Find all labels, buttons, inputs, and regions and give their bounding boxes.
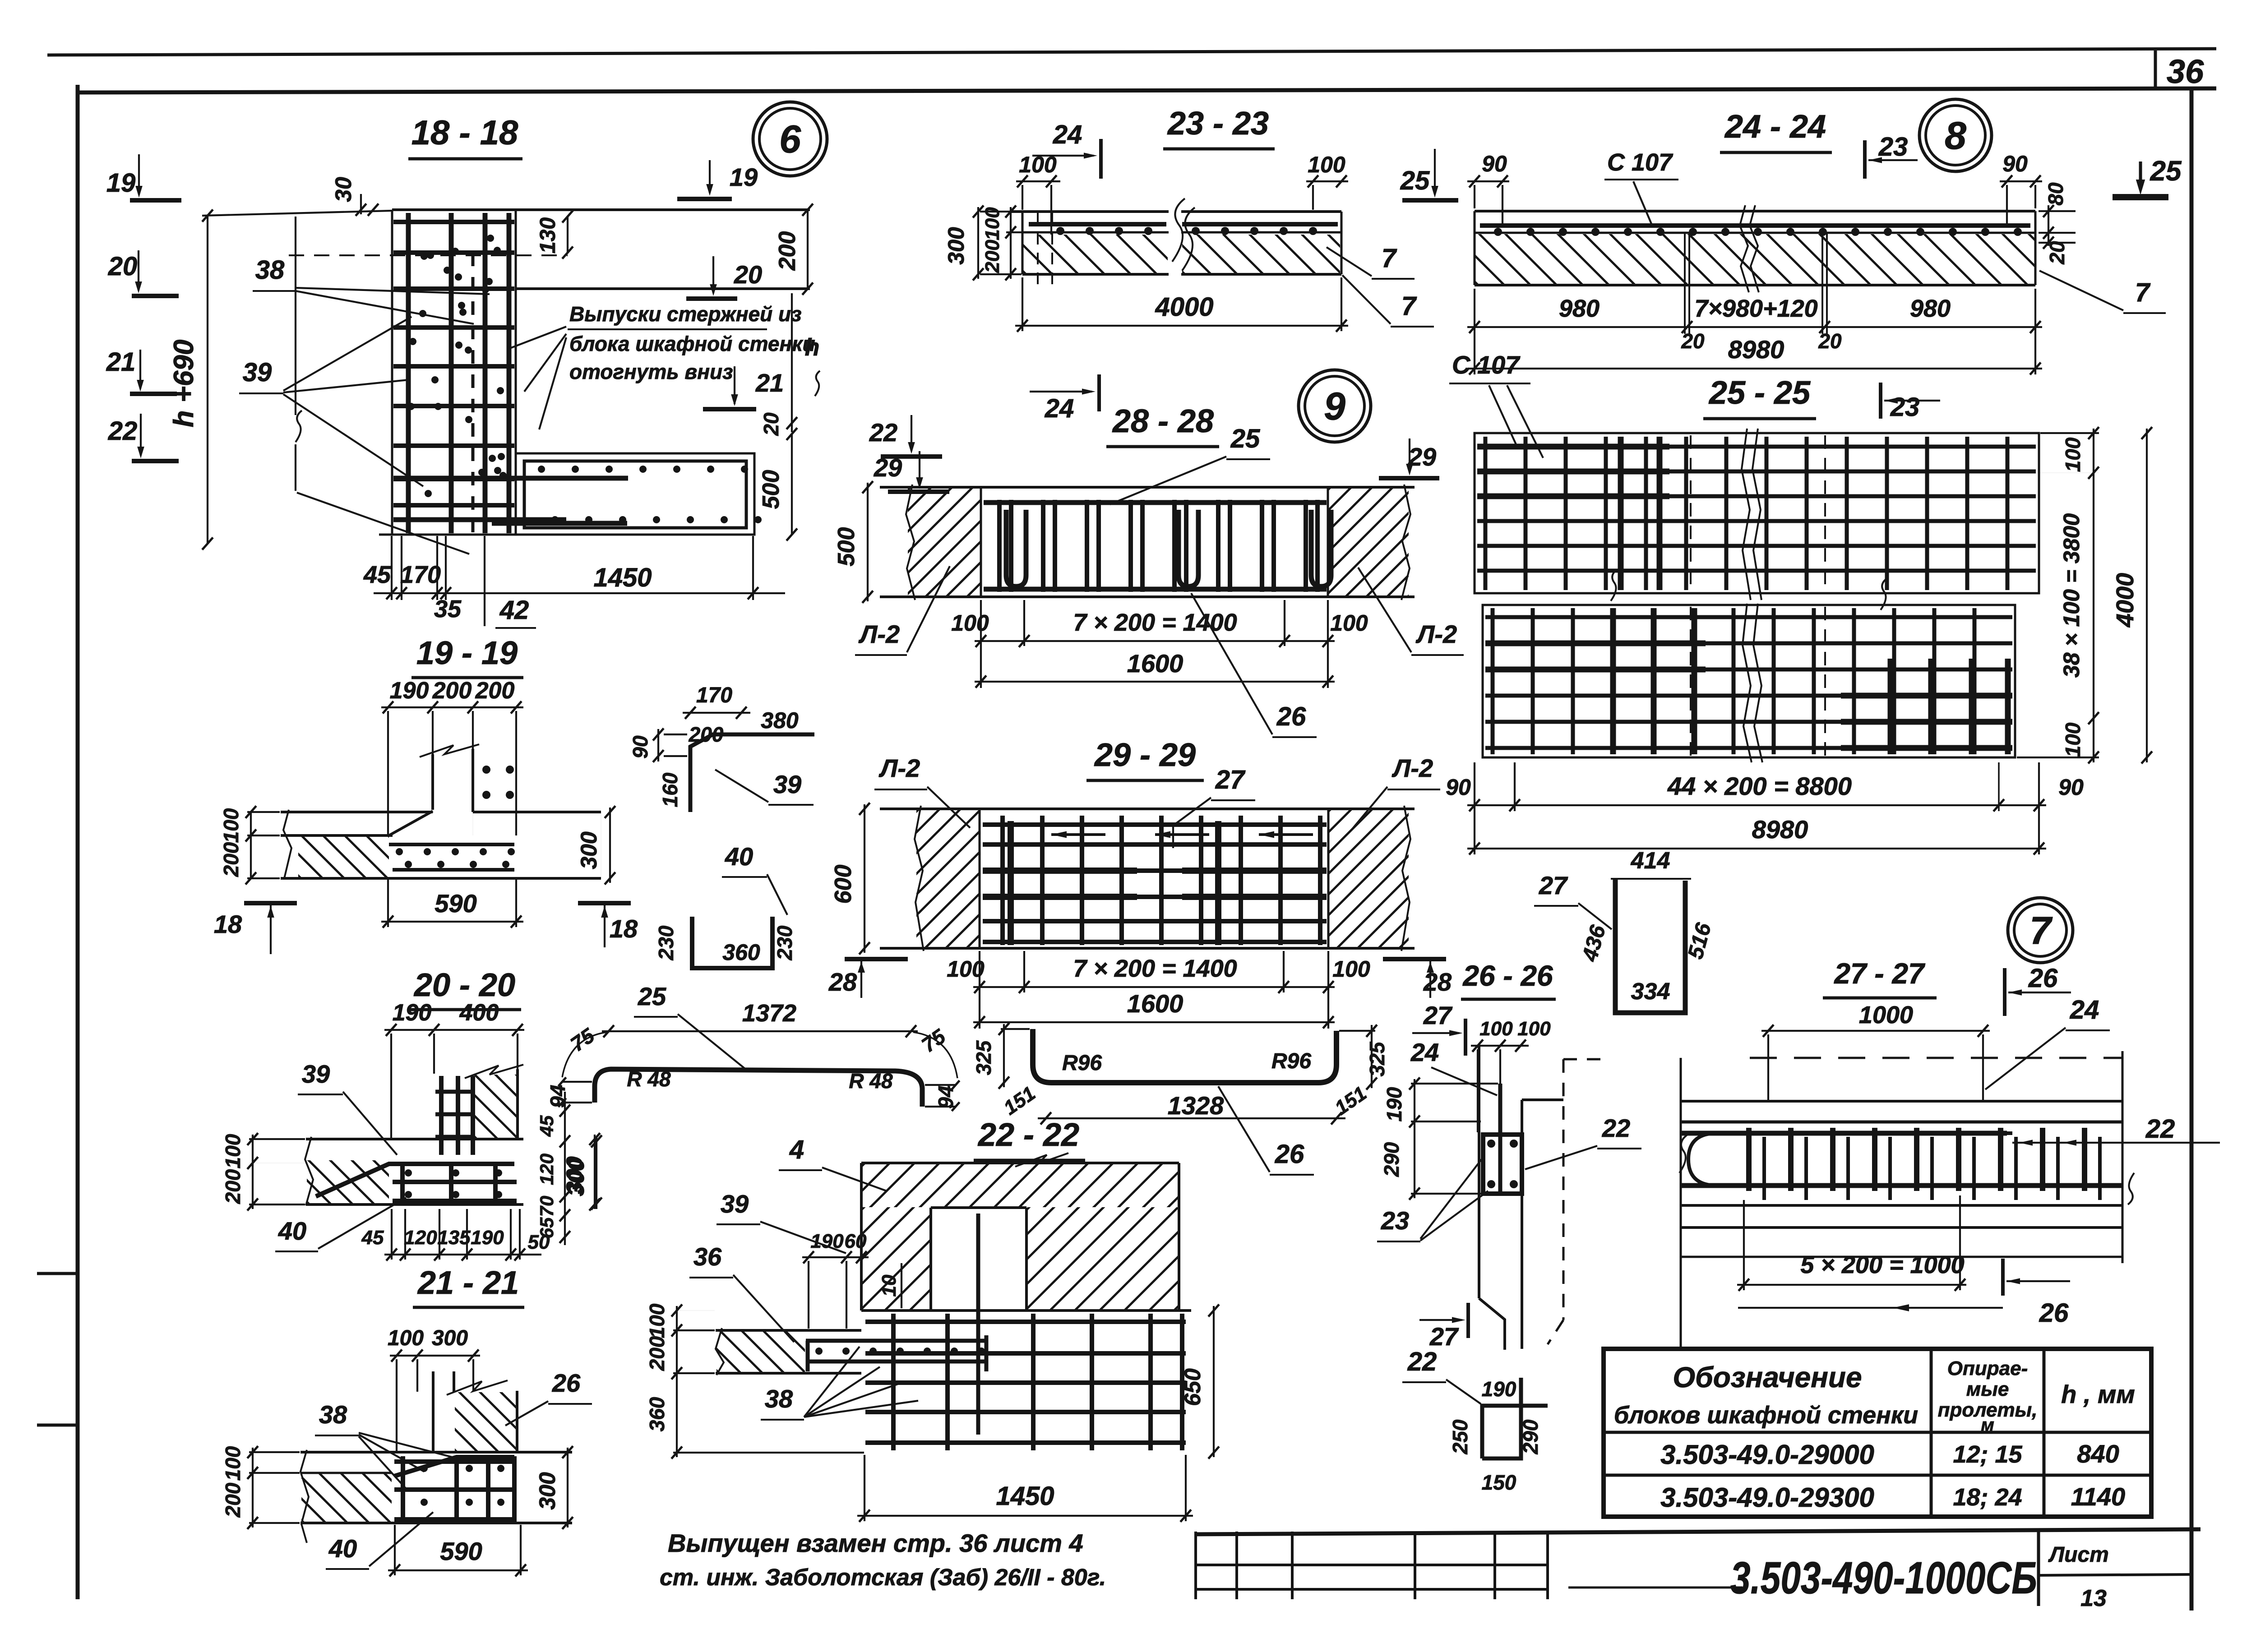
svg-text:18: 18: [214, 910, 242, 938]
stamp list box: [2037, 1532, 2040, 1606]
svg-text:200: 200: [645, 1336, 669, 1371]
svg-text:26: 26: [1276, 702, 1306, 731]
svg-text:23: 23: [1890, 392, 1920, 422]
svg-text:1600: 1600: [1127, 649, 1183, 678]
item 26 right dim 325: [1371, 1025, 1373, 1088]
border inner top line: [78, 88, 2216, 92]
21-21 wall break top: [447, 1380, 508, 1395]
svg-text:Л-2: Л-2: [858, 620, 900, 648]
svg-text:4: 4: [789, 1135, 804, 1164]
svg-text:45: 45: [536, 1115, 557, 1137]
svg-text:10: 10: [878, 1274, 900, 1297]
svg-text:18: 18: [610, 914, 638, 943]
20-20 bottom dims 45 120 135 190 50: [384, 1254, 541, 1255]
svg-text:650: 650: [1180, 1368, 1205, 1406]
svg-text:Лист: Лист: [2048, 1543, 2109, 1567]
svg-text:170: 170: [400, 561, 441, 588]
svg-text:150: 150: [1482, 1471, 1516, 1494]
svg-text:325: 325: [972, 1040, 995, 1075]
svg-text:590: 590: [440, 1537, 482, 1565]
19-19 rebar top with dots: [389, 843, 514, 846]
svg-text:100: 100: [1332, 956, 1370, 982]
svg-text:360: 360: [645, 1397, 669, 1431]
svg-text:980: 980: [1559, 295, 1600, 322]
svg-text:38: 38: [255, 255, 285, 285]
26-26 wall top line: [1522, 1098, 1563, 1101]
25-25 lower thick overlay bars: [1610, 608, 1616, 754]
svg-text:600: 600: [830, 865, 856, 904]
svg-text:8980: 8980: [1752, 815, 1808, 844]
svg-text:28 - 28: 28 - 28: [1112, 403, 1214, 439]
svg-text:1372: 1372: [742, 1000, 796, 1027]
28-28 beam outline: [880, 486, 1415, 489]
border left: [76, 85, 80, 1599]
svg-text:840: 840: [2077, 1440, 2119, 1468]
svg-text:100: 100: [1019, 152, 1057, 177]
18-18 column dots: [427, 252, 434, 259]
19-19 slab wavy left edge: [283, 810, 291, 878]
svg-text:200: 200: [981, 240, 1003, 273]
svg-text:200: 200: [221, 1169, 245, 1204]
20-20 left dims 100 200: [252, 1135, 254, 1209]
18-18 top strip bottom line: [516, 287, 810, 290]
svg-text:39: 39: [243, 358, 272, 387]
27-27 right end verticals: [2122, 1051, 2124, 1263]
svg-text:7×980+120: 7×980+120: [1694, 295, 1817, 322]
19-19 corner fillet: [389, 811, 433, 835]
22-22 slab wavy left edge: [716, 1328, 724, 1375]
28-28 hairpin hooks: [1006, 510, 1026, 586]
svg-text:29 - 29: 29 - 29: [1094, 737, 1196, 773]
18-18 note leaders: [510, 327, 566, 348]
svg-text:100: 100: [2061, 722, 2085, 757]
18-18 top strip dashed axis: [289, 254, 568, 256]
svg-text:100: 100: [2061, 437, 2085, 472]
svg-text:190: 190: [393, 1000, 432, 1026]
svg-text:230: 230: [654, 925, 678, 960]
25-25 bottom dim row 1: [1467, 804, 2046, 806]
svg-text:4000: 4000: [1155, 292, 1213, 322]
left frame tick 1: [37, 1272, 79, 1275]
21-21 left dims 100 200: [252, 1448, 254, 1527]
25-25 wavy break verticals: [1742, 429, 1751, 600]
svg-text:R96: R96: [1271, 1049, 1311, 1073]
svg-text:190: 190: [390, 678, 429, 704]
svg-text:24: 24: [1410, 1038, 1439, 1066]
svg-text:35: 35: [434, 595, 462, 623]
svg-text:6: 6: [779, 118, 801, 161]
18-18 bars extending right: [393, 476, 628, 481]
svg-text:200: 200: [475, 678, 515, 704]
22-22 slab top line left: [716, 1329, 861, 1332]
29-29 rebar mesh horizontals: [983, 822, 1327, 827]
svg-text:12; 15: 12; 15: [1953, 1441, 2022, 1468]
svg-text:h: h: [805, 334, 820, 361]
23-23 left dims 300 100 200: [977, 207, 979, 279]
24-24 joint lines: [1684, 234, 1686, 334]
svg-text:100: 100: [1308, 152, 1345, 177]
svg-text:100: 100: [221, 1446, 245, 1481]
channel section 414/436/516/334: [1615, 879, 1685, 1013]
item 26 left dim 325: [1003, 1024, 1005, 1087]
27-27 dashed top line: [1750, 1057, 2122, 1059]
svg-text:20: 20: [1818, 329, 1842, 353]
19-19 right dim 300: [601, 812, 601, 878]
svg-text:R96: R96: [1062, 1051, 1102, 1075]
22-22 small cage in slab: [806, 1339, 986, 1343]
19-19 slab top line: [281, 811, 433, 813]
svg-text:4000: 4000: [2112, 573, 2139, 628]
22-22 block outline: [860, 1163, 863, 1311]
27-27 thick top bar overlay: [1737, 1131, 2012, 1135]
svg-text:1450: 1450: [996, 1481, 1054, 1511]
svg-text:C 107: C 107: [1607, 149, 1674, 176]
svg-text:24 - 24: 24 - 24: [1724, 109, 1826, 145]
border top outer line: [47, 49, 2216, 55]
svg-text:20: 20: [1681, 329, 1705, 353]
25-25 right outer dim 4000: [2146, 429, 2148, 762]
svg-text:94: 94: [934, 1085, 957, 1108]
22-22 bottom dim 1450: [857, 1515, 1193, 1517]
svg-text:39: 39: [302, 1060, 330, 1088]
26-26 wall inner vertical: [1521, 1100, 1523, 1298]
svg-text:19: 19: [730, 163, 758, 191]
23-23 dashed verticals left: [1037, 213, 1039, 289]
28-28 dim 500 left: [867, 483, 869, 601]
23-23 slab part 2: [1181, 210, 1341, 213]
svg-text:100: 100: [219, 808, 243, 843]
svg-text:7: 7: [1382, 244, 1397, 273]
svg-text:100: 100: [1479, 1018, 1513, 1040]
svg-text:1328: 1328: [1168, 1091, 1224, 1120]
svg-text:300: 300: [943, 227, 969, 265]
svg-text:1450: 1450: [593, 563, 652, 592]
18-18 column dashed bar: [472, 253, 475, 532]
svg-text:100: 100: [951, 610, 989, 636]
svg-text:120: 120: [536, 1154, 557, 1185]
svg-text:100: 100: [221, 1134, 245, 1168]
svg-text:8: 8: [1945, 114, 1966, 157]
svg-text:38: 38: [765, 1384, 793, 1413]
svg-text:190: 190: [471, 1227, 504, 1249]
27-27 left hairpin hook: [1688, 1133, 1715, 1186]
svg-text:25: 25: [1400, 166, 1430, 195]
19-19 extension lines from dims: [387, 711, 389, 835]
21-21 slab bottom line: [300, 1522, 572, 1524]
25-25 lower panel outline: [1483, 605, 2015, 757]
svg-text:90: 90: [1482, 151, 1507, 176]
29-29 rebar mesh verticals: [1000, 816, 1005, 945]
svg-text:23: 23: [1381, 1206, 1409, 1235]
28-28 cage bottom bar: [984, 587, 1327, 592]
svg-text:400: 400: [459, 1000, 499, 1026]
svg-text:20: 20: [734, 260, 762, 289]
21-21 slab wavy left edge: [300, 1450, 309, 1543]
28-28 stirrups: [997, 500, 1002, 592]
svg-text:мые: мые: [1966, 1378, 2009, 1400]
18-18 bottom extension lines: [391, 536, 393, 600]
18-18 right dim 20: [786, 417, 797, 429]
27-27 left edge: [1680, 1058, 1682, 1347]
svg-text:9: 9: [1324, 385, 1345, 428]
svg-text:26: 26: [2039, 1298, 2069, 1328]
svg-text:1600: 1600: [1127, 989, 1183, 1018]
svg-text:отогнуть вниз: отогнуть вниз: [569, 360, 733, 383]
svg-text:45: 45: [363, 561, 391, 588]
23-23 break squiggles: [1172, 198, 1185, 262]
circled detail number 7: [2008, 898, 2073, 963]
29-29 beam outline: [880, 808, 1415, 810]
svg-text:3.503-49.0-29000: 3.503-49.0-29000: [1660, 1440, 1874, 1470]
svg-text:h +690: h +690: [168, 340, 199, 428]
table verticals: [1930, 1349, 1933, 1517]
24-24 bottom dim row 1: [1467, 326, 2042, 328]
svg-text:100: 100: [1517, 1018, 1551, 1040]
svg-text:26: 26: [2028, 964, 2058, 993]
stamp revision grid verticals: [1194, 1532, 1197, 1599]
29-29 marker 28 right: [1383, 957, 1446, 961]
stamp top line: [1195, 1529, 2201, 1534]
svg-text:39: 39: [721, 1190, 749, 1218]
svg-text:200: 200: [221, 1482, 245, 1518]
svg-text:100: 100: [645, 1303, 669, 1338]
24-24 wavy break middle: [1740, 205, 1749, 292]
dim 300 left of 22-22: [596, 1137, 597, 1209]
circled detail number 9: [1299, 370, 1371, 442]
stamp signature line: [1568, 1587, 1743, 1589]
svg-text:20: 20: [759, 412, 783, 436]
svg-text:200: 200: [774, 231, 800, 271]
22-22 column notch: [931, 1206, 1026, 1209]
svg-text:40: 40: [278, 1217, 306, 1245]
svg-text:19: 19: [106, 168, 136, 198]
svg-text:18; 24: 18; 24: [1953, 1484, 2022, 1511]
svg-text:590: 590: [435, 889, 476, 918]
svg-text:414: 414: [1631, 848, 1670, 874]
19-19 bottom dim 590: [381, 921, 523, 923]
svg-text:170: 170: [696, 683, 732, 707]
20-20 slab bottom line: [306, 1203, 523, 1206]
svg-text:980: 980: [1910, 295, 1951, 322]
svg-text:Л-2: Л-2: [878, 754, 920, 782]
29-29 thick cluster bars: [983, 868, 1137, 874]
18-18 circled detail number 6: [753, 102, 827, 176]
18-18 break diagonal to bottom corner: [297, 493, 469, 554]
svg-text:5 × 200 = 1000: 5 × 200 = 1000: [1800, 1251, 1964, 1278]
item 25 right end arc and dims: [913, 1032, 957, 1078]
svg-text:1140: 1140: [2071, 1482, 2125, 1511]
svg-text:40: 40: [725, 842, 753, 871]
21-21 right dim 300: [567, 1448, 569, 1527]
svg-text:h , мм: h , мм: [2061, 1380, 2135, 1408]
svg-text:1000: 1000: [1859, 1001, 1913, 1029]
svg-text:28: 28: [828, 968, 857, 996]
svg-text:24: 24: [1045, 394, 1074, 423]
svg-text:Л-2: Л-2: [1415, 620, 1457, 648]
svg-text:290: 290: [1380, 1142, 1403, 1177]
svg-text:22: 22: [108, 416, 138, 446]
28-28 dims bottom: [975, 640, 1335, 642]
svg-text:18 - 18: 18 - 18: [411, 114, 518, 152]
24-24 slab outline: [1475, 210, 2035, 212]
26-26 bar 24 vertical: [1498, 1084, 1502, 1194]
svg-text:94: 94: [546, 1084, 569, 1107]
svg-text:230: 230: [773, 925, 796, 960]
27-27 bottom leader line: [1738, 1307, 2003, 1309]
svg-text:Обозначение: Обозначение: [1673, 1361, 1862, 1394]
18-18 dim h+690 vertical: [207, 216, 208, 544]
18-18 bottom dim line: [374, 592, 785, 594]
25-25 upper thick overlay bars: [1618, 437, 1624, 590]
24-24 bottom dim row 2 8980: [1467, 368, 2042, 369]
svg-text:200: 200: [432, 678, 472, 704]
19-19 marker 18 left: [244, 901, 297, 905]
18-18 column vertical rebars: [406, 213, 411, 533]
stamp revision grid horizontals: [1196, 1564, 1548, 1566]
18-18 column outline: [391, 210, 393, 535]
svg-text:130: 130: [536, 217, 560, 254]
svg-text:блока шкафной стенки: блока шкафной стенки: [569, 332, 815, 355]
18-18 dim 130: [567, 217, 569, 253]
svg-text:39: 39: [773, 770, 801, 798]
20-20 bent bar 39 in slab: [316, 1164, 514, 1196]
item 39 dim 170: [683, 712, 750, 714]
19-19 marker 18 right: [578, 901, 631, 905]
svg-text:300: 300: [576, 831, 601, 869]
19-19 stem break top: [420, 744, 479, 757]
svg-text:200: 200: [219, 842, 243, 877]
svg-text:25: 25: [638, 982, 666, 1011]
18-18 top extension line: [202, 211, 392, 216]
svg-text:300: 300: [432, 1326, 468, 1350]
svg-text:22: 22: [1407, 1347, 1437, 1376]
svg-text:21 - 21: 21 - 21: [417, 1265, 519, 1301]
svg-text:Опирае-: Опирае-: [1947, 1357, 2028, 1380]
svg-text:26: 26: [1275, 1140, 1304, 1169]
18-18 lower cage outer: [516, 453, 754, 535]
25-25 lower panel grid: [1491, 608, 1495, 754]
svg-text:13: 13: [2080, 1585, 2107, 1611]
19-19 left dims 100 200: [250, 812, 252, 878]
svg-text:25: 25: [2150, 156, 2182, 187]
20-20 cage right of hatch: [393, 1180, 517, 1184]
19-19 slab bottom line: [281, 877, 601, 880]
table header divider: [1604, 1431, 2151, 1434]
svg-text:22: 22: [1602, 1114, 1630, 1142]
20-20 slab top line: [306, 1138, 523, 1140]
18-18 inner reference line with break: [295, 217, 296, 415]
svg-text:500: 500: [758, 470, 784, 509]
item 39 dim 90: [664, 734, 687, 735]
item 22 profile rect: [1482, 1406, 1548, 1458]
svg-text:ст. инж. Заболотская (Заб): ст. инж. Заболотская (Заб) 26/II - 80г.: [660, 1564, 1106, 1591]
svg-text:3.503-49.0-29300: 3.503-49.0-29300: [1660, 1482, 1874, 1513]
22-22 column axis bar: [976, 1214, 980, 1435]
left frame tick 2: [37, 1424, 79, 1427]
svg-text:42: 42: [499, 595, 529, 625]
svg-text:R 48: R 48: [627, 1067, 671, 1091]
svg-text:290: 290: [1519, 1419, 1542, 1454]
svg-text:25: 25: [1230, 424, 1260, 453]
21-21 bottom dim 590: [388, 1569, 528, 1571]
20-20 rebar column: [439, 1076, 444, 1155]
svg-text:380: 380: [761, 708, 799, 733]
svg-text:70: 70: [536, 1196, 557, 1217]
svg-text:200: 200: [689, 723, 724, 746]
svg-text:23 - 23: 23 - 23: [1167, 106, 1269, 142]
item 25 left end arc and dims: [562, 1032, 607, 1077]
svg-text:120: 120: [404, 1227, 437, 1249]
svg-text:500: 500: [833, 527, 860, 567]
svg-text:27: 27: [1423, 1001, 1453, 1029]
28-28 cage top bar: [984, 500, 1327, 505]
20-20 block break top: [465, 1065, 523, 1078]
svg-text:160: 160: [658, 772, 682, 807]
18-18 top strip top line: [392, 208, 810, 211]
svg-text:250: 250: [1448, 1419, 1472, 1454]
27-27 stirrups: [1746, 1128, 1752, 1191]
item 26 bar: [1033, 1029, 1336, 1083]
svg-text:7 × 200 = 1400: 7 × 200 = 1400: [1073, 955, 1237, 982]
svg-text:20 - 20: 20 - 20: [413, 967, 515, 1003]
21-21 slab mid line: [300, 1472, 392, 1474]
svg-text:20: 20: [2045, 241, 2069, 265]
25-25 right dims 100 3800 100: [2093, 429, 2094, 762]
svg-text:334: 334: [1631, 978, 1670, 1005]
25-25 upper panel outline: [1475, 433, 2039, 593]
20-20 right small dims 45 120 70 65: [564, 1092, 566, 1245]
21-21 rebar cage: [394, 1459, 517, 1464]
svg-text:38 × 100 = 3800: 38 × 100 = 3800: [2059, 513, 2084, 678]
26-26 wall step bottom: [1479, 1298, 1505, 1350]
svg-text:45: 45: [361, 1227, 384, 1249]
25-25 dashed joint verticals: [1690, 435, 1692, 591]
svg-text:135: 135: [437, 1227, 471, 1249]
svg-text:блоков шкафной стенки: блоков шкафной стенки: [1614, 1402, 1918, 1429]
svg-text:44 × 200 = 8800: 44 × 200 = 8800: [1667, 772, 1852, 800]
svg-text:25 - 25: 25 - 25: [1708, 375, 1811, 411]
item 26 dim 1328: [1038, 1117, 1345, 1119]
svg-text:26 - 26: 26 - 26: [1462, 960, 1553, 992]
21-21 cage dots: [421, 1465, 428, 1472]
border right: [2190, 90, 2194, 1610]
25-25 break squiggles between panels: [1611, 569, 1617, 601]
19-19 rebar bottom with dots: [393, 868, 514, 872]
svg-text:29: 29: [874, 453, 902, 482]
26-26 left dim 190 290: [1414, 1079, 1415, 1198]
svg-text:24: 24: [2070, 995, 2099, 1024]
item 40 channel: [692, 917, 772, 968]
svg-text:40: 40: [328, 1534, 357, 1563]
svg-text:28: 28: [1423, 968, 1452, 996]
18-18 lower cage inner: [524, 461, 746, 528]
29-29 marker 28 left: [845, 957, 908, 961]
18-18 bottom boundary line: [379, 534, 754, 536]
item 25 bar: [595, 1069, 922, 1107]
svg-text:190: 190: [1482, 1377, 1516, 1401]
svg-text:7: 7: [2029, 909, 2053, 952]
svg-text:м: м: [1981, 1415, 1994, 1435]
svg-text:325: 325: [1365, 1041, 1389, 1076]
svg-text:38: 38: [319, 1400, 347, 1429]
svg-text:3.503-490-1000СБ: 3.503-490-1000СБ: [1730, 1553, 2037, 1603]
svg-text:Выпущен взамен стр. 36 лист: Выпущен взамен стр. 36 лист 4: [668, 1529, 1083, 1557]
svg-text:50: 50: [528, 1231, 550, 1253]
29-29 dim 600 left: [864, 804, 865, 953]
18-18 right dim 200: [807, 210, 809, 289]
26-26 rebar box item 22: [1483, 1135, 1522, 1194]
svg-text:36: 36: [2167, 53, 2204, 90]
